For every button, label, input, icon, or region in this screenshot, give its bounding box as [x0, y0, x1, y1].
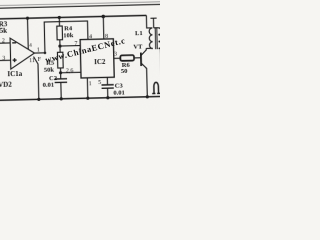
border frame (top edge of figure) — [0, 4, 161, 8]
wire R4 bottom to node — [59, 40, 61, 52]
wire op-amp output to IC2 pin4 — [44, 21, 88, 53]
node pin8 rail — [101, 15, 105, 19]
IC2 555 box — [80, 39, 114, 78]
resistor R3 label (body off-frame) — [0, 20, 8, 35]
C2 value labels — [42, 75, 57, 89]
wire R4 top to rail — [58, 17, 60, 26]
node R4 rail — [58, 16, 61, 19]
wire C2 to ground rail — [60, 82, 62, 98]
transformer L1 primary winding — [149, 28, 153, 49]
wire to IC2 pins 2,6 — [61, 71, 81, 73]
node at rail x28 — [26, 17, 29, 20]
resistor R4 — [57, 26, 63, 40]
R5 value labels — [44, 60, 56, 74]
resistor R6 — [120, 55, 134, 61]
speaker bell symbol — [152, 82, 160, 93]
border frame faint upper line — [0, 2, 161, 6]
capacitor C2 — [55, 79, 68, 83]
power rail V+ — [0, 15, 146, 19]
wire secondary top jog — [154, 27, 158, 29]
wire secondary bottom to speaker — [159, 48, 161, 82]
wire collector jog to transformer primary bottom — [146, 47, 153, 49]
R4 value labels — [63, 25, 74, 39]
node emitter at ground rail — [146, 95, 149, 98]
terminal T at transformer top — [150, 18, 156, 28]
wire op-amp pin11 to ground rail — [34, 56, 39, 99]
wire IC2 pin8 to rail — [102, 16, 105, 39]
node pin11 at ground rail — [37, 98, 40, 101]
wire op-amp pin4 to V+ rail — [27, 18, 30, 49]
node output junction — [44, 51, 47, 54]
wire rail corner down to transformer — [146, 15, 152, 28]
paper grain overlay — [0, 0, 160, 110]
wire IC2 pin3 to R6 — [114, 57, 121, 59]
R6 value labels — [121, 62, 131, 76]
wire pin2 input stub — [0, 42, 10, 44]
transformer core — [155, 27, 157, 49]
wire pin3 input stub — [0, 59, 11, 61]
wire op-amp output — [34, 52, 44, 54]
transformer secondary winding — [158, 28, 162, 49]
wire IC2 pin1 to ground — [86, 78, 88, 98]
capacitor C3 — [102, 85, 114, 89]
node C3 ground — [106, 96, 109, 99]
wire R5 bottom to node — [59, 68, 61, 79]
wire IC2 pin5 to C3 — [106, 77, 108, 84]
C3 value labels — [113, 82, 125, 96]
node R4/R5/pin7 — [58, 44, 61, 47]
op-amp U1 IC1a triangle — [10, 38, 35, 70]
ground rail — [0, 96, 162, 100]
wire to IC2 pin7 — [60, 45, 80, 47]
wire C3 to ground — [107, 88, 109, 98]
node R5/C2/pin2,6 — [59, 71, 62, 74]
resistor R5 — [57, 52, 63, 68]
op-amp minus sign — [12, 42, 16, 44]
transistor VT — [141, 48, 148, 97]
wire R6 to VT base — [134, 57, 140, 59]
node pin1 ground — [86, 97, 89, 100]
node C2 ground — [60, 97, 63, 100]
op-amp plus sign — [13, 58, 17, 62]
